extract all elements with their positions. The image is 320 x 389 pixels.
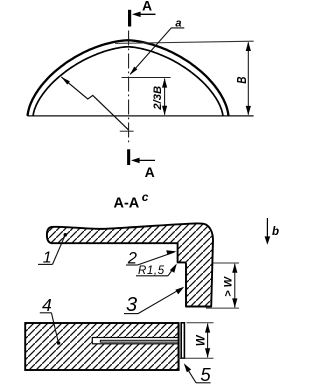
slot in block xyxy=(92,338,178,344)
arrowhead >W top xyxy=(232,263,237,272)
part 4 block (hatched) xyxy=(25,323,178,370)
thin bar inside slot xyxy=(100,340,178,342)
centerline (dash-dot) xyxy=(128,31,130,144)
leader 4 with dot xyxy=(51,313,58,343)
svg-text:W: W xyxy=(195,334,207,346)
svg-text:2/3B: 2/3B xyxy=(152,86,164,111)
section marker top: arrow xyxy=(139,13,156,15)
dimension W: top extension xyxy=(187,322,214,324)
leader 2 with arrow xyxy=(138,252,175,265)
wire: baseline under dome xyxy=(28,115,254,117)
leader R1,5 with arrow xyxy=(168,265,176,276)
arrowhead >W bottom xyxy=(232,298,237,307)
extension line at apex for B xyxy=(115,41,254,43)
arrowhead a-leader (points down-left at center cross) xyxy=(130,67,138,75)
arrowhead B bottom xyxy=(246,106,251,115)
svg-text:A-A: A-A xyxy=(114,196,140,212)
arrowhead B top xyxy=(246,42,251,51)
arrowhead W bottom xyxy=(205,348,210,357)
leader 3 with arrow xyxy=(138,288,183,314)
direction arrow b xyxy=(266,218,268,243)
section marker top: bar xyxy=(128,10,131,27)
extension tick at 2/3B level xyxy=(122,77,171,79)
center mark tick of arc xyxy=(120,130,134,132)
svg-text:a: a xyxy=(175,17,181,29)
svg-text:c: c xyxy=(142,190,149,204)
dimension >W line xyxy=(234,264,236,308)
svg-text:B: B xyxy=(236,77,250,84)
leader 5 with arrow xyxy=(185,365,196,383)
part 1+2+3 panel outline (hatched) xyxy=(47,223,213,306)
arrowhead 2/3B bottom xyxy=(162,106,167,115)
arrowhead radius line (points up-left at inner arc) xyxy=(61,77,70,85)
block right edge emphasized xyxy=(178,323,180,370)
outer arc of dome shell xyxy=(28,40,229,116)
leader 1 with dot xyxy=(53,235,66,265)
svg-text:3: 3 xyxy=(126,294,137,316)
dimension >W: top extension xyxy=(213,262,239,264)
arrowhead 2/3B top xyxy=(162,78,167,87)
svg-text:4: 4 xyxy=(42,295,52,315)
dimension >W: bottom extension xyxy=(206,307,239,309)
svg-text:5: 5 xyxy=(200,364,211,385)
svg-text:A: A xyxy=(145,164,155,180)
part 5 vertical plate xyxy=(181,323,184,358)
radius line with break (zigzag) xyxy=(61,77,128,130)
svg-text:> W: > W xyxy=(222,275,234,296)
svg-text:b: b xyxy=(272,226,279,238)
section marker bottom: arrow xyxy=(138,159,155,161)
arrowhead W top xyxy=(205,323,210,332)
dimension W: bottom extension xyxy=(178,357,214,359)
leader for label a xyxy=(130,28,184,74)
svg-text:1: 1 xyxy=(43,249,52,266)
dimension W line xyxy=(207,324,209,358)
section marker bottom: bar xyxy=(127,149,130,165)
dimension B line xyxy=(247,42,249,114)
svg-text:A: A xyxy=(142,0,152,13)
dimension 2/3B line xyxy=(164,79,166,115)
inner arc of dome shell xyxy=(33,47,223,116)
